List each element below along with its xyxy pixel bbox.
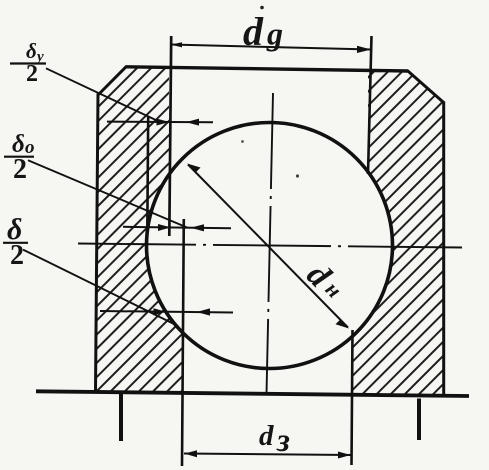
svg-text:2: 2: [13, 154, 27, 185]
svg-text:з: з: [276, 423, 290, 459]
svg-text:δ: δ: [26, 39, 37, 63]
svg-text:d: d: [243, 9, 264, 54]
svg-text:2: 2: [10, 240, 24, 271]
svg-text:d: d: [259, 420, 274, 452]
svg-text:2: 2: [26, 61, 38, 87]
svg-text:g: g: [266, 16, 283, 52]
